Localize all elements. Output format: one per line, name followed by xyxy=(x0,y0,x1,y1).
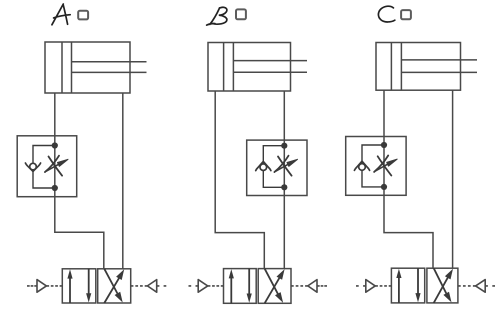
junction C lower xyxy=(381,184,387,190)
cylinder A piston xyxy=(62,42,72,93)
4/2 directional valve A left position box xyxy=(62,269,96,303)
valve B flow arrow up xyxy=(230,277,232,303)
throttle B restriction arcs xyxy=(278,157,292,176)
check valve C seat xyxy=(354,161,369,170)
wire A cylinder rod-end down xyxy=(122,93,124,269)
pilot A-right dashed line xyxy=(131,285,148,287)
valve B crossed arrow (TL to BR) xyxy=(265,269,279,295)
pilot B-right triangle xyxy=(308,280,317,293)
valve C flow arrow up xyxy=(398,277,400,303)
valve A flow arrow up xyxy=(69,277,71,303)
pilot C-left triangle xyxy=(366,280,375,293)
throttle B adjust arrow xyxy=(276,164,289,171)
junction A lower xyxy=(52,185,58,191)
pilot A-left triangle xyxy=(37,280,46,293)
4/2 directional valve C left position box xyxy=(391,268,424,303)
valve A crossed arrow (BL to TR) xyxy=(104,278,119,303)
wire C cylinder rod-end down xyxy=(452,90,454,268)
wire B cylinder cap-end to valve xyxy=(215,91,264,269)
flow control valve C enclosure xyxy=(346,137,406,196)
check valve B seat xyxy=(256,161,271,170)
check valve B ball xyxy=(260,164,267,171)
pilot C-left dashed line xyxy=(356,285,366,287)
throttle A adjust arrow xyxy=(46,164,59,171)
label C xyxy=(378,6,394,22)
checkbox C xyxy=(401,10,411,19)
wire A flow-control to valve xyxy=(55,197,104,269)
valve B crossed arrow (BL to TR) xyxy=(265,278,280,304)
4/2 directional valve A right position box xyxy=(98,269,131,303)
pilot B-left dashed line xyxy=(189,285,199,287)
pilot C-right dashed line xyxy=(458,285,476,287)
wire C cylinder cap-end down xyxy=(383,90,385,136)
wire C flow-control to valve xyxy=(384,195,433,268)
wire A cylinder cap-end down xyxy=(54,93,56,136)
junction C upper xyxy=(381,142,387,148)
valve C crossed arrow (BL to TR) xyxy=(434,277,448,303)
junction B lower xyxy=(281,184,287,190)
check valve A seat xyxy=(25,163,40,171)
wire B cylinder rod-end down xyxy=(283,91,285,140)
cylinder B piston rod xyxy=(233,61,307,73)
valve C crossed arrow (TL to BR) xyxy=(434,268,447,294)
junction B upper xyxy=(281,143,287,149)
valve B flow arrow down xyxy=(248,269,250,295)
flow control valve B enclosure xyxy=(247,140,307,195)
wire B through flow control xyxy=(283,140,285,195)
cylinder C piston xyxy=(391,43,401,91)
pilot C-right triangle xyxy=(476,280,486,293)
label A xyxy=(52,4,70,25)
pilot A-left dashed line xyxy=(27,285,37,287)
wire A check-valve bypass branch xyxy=(33,146,55,164)
cylinder A body xyxy=(45,42,130,93)
wire B flow-control to valve xyxy=(283,196,285,269)
wire B check-valve bypass branch xyxy=(263,146,284,164)
check valve C ball xyxy=(359,164,366,171)
throttle A restriction arcs xyxy=(49,157,63,176)
throttle C restriction arcs xyxy=(378,156,392,175)
valve A flow arrow down xyxy=(88,269,90,295)
4/2 directional valve B left position box xyxy=(224,269,257,304)
pilot B-right dashed line xyxy=(291,285,308,287)
cylinder A piston rod xyxy=(72,62,147,73)
valve C flow arrow down xyxy=(417,268,419,294)
check valve A ball xyxy=(30,163,37,170)
valve A crossed arrow (TL to BR) xyxy=(104,269,117,294)
wire C check-valve bypass branch xyxy=(362,145,384,164)
4/2 directional valve B right position box xyxy=(258,269,291,304)
pilot A-right triangle xyxy=(147,280,156,293)
4/2 directional valve C right position box xyxy=(427,268,458,303)
cylinder C body xyxy=(376,43,461,91)
flow control valve A enclosure xyxy=(17,136,76,197)
checkbox B xyxy=(236,9,246,19)
wire C through flow control xyxy=(383,137,385,196)
cylinder B piston xyxy=(224,43,234,92)
cylinder C piston rod xyxy=(401,60,477,73)
cylinder B body xyxy=(208,43,291,92)
junction A upper xyxy=(52,142,58,148)
throttle C adjust arrow xyxy=(375,164,388,171)
pilot B-left triangle xyxy=(198,280,208,293)
checkbox A xyxy=(78,11,88,20)
wire A through flow control xyxy=(54,136,56,197)
label B xyxy=(207,7,227,25)
